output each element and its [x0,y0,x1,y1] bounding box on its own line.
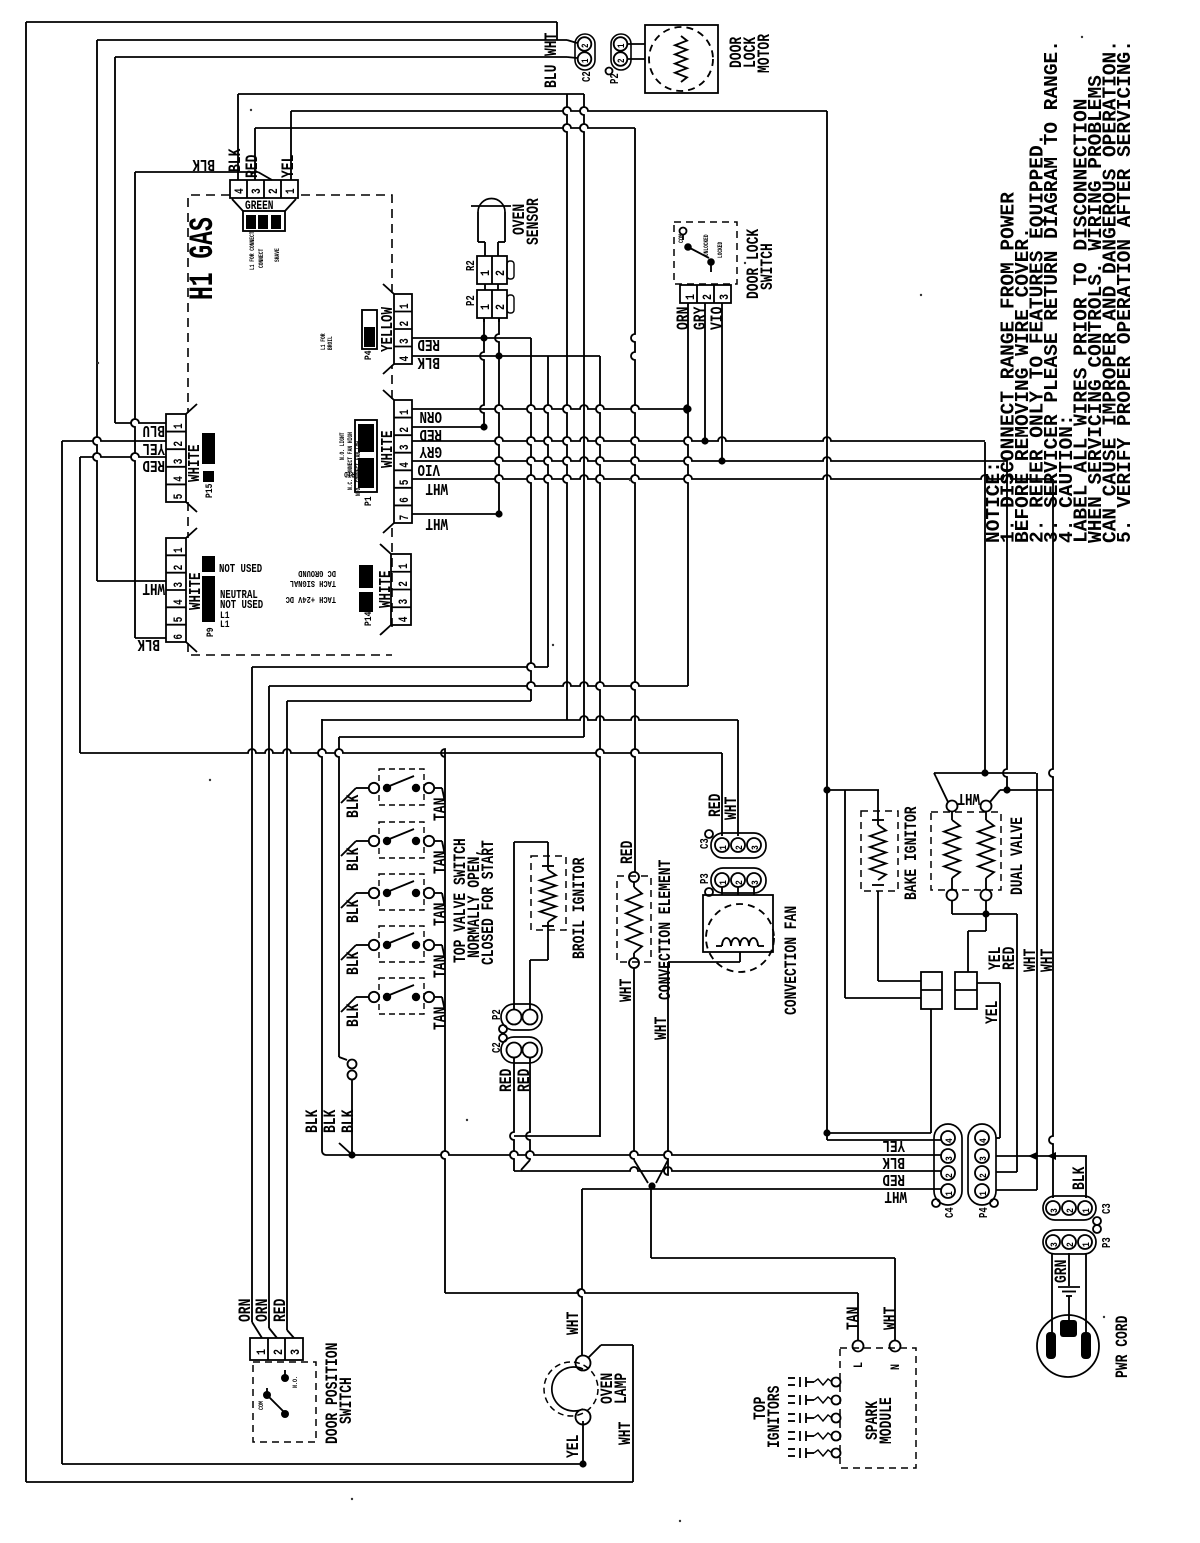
svg-text:2: 2 [268,188,282,194]
svg-text:BROIL IGNITOR: BROIL IGNITOR [569,857,589,959]
wire BLK into P9 pin6 [135,637,166,639]
wire WHT P1.5 y479 [412,475,1053,479]
pwr cord plug [1037,1315,1099,1377]
svg-text:RED: RED [514,1069,534,1092]
wire valve bottom left lead [951,900,953,914]
svg-text:2: 2 [1064,1208,1076,1213]
svg-text:3: 3 [749,880,761,885]
wire RED broil x514 down [510,1058,514,1171]
wire BLK vertical x584 [580,94,584,737]
svg-text:5: 5 [173,616,187,622]
wire valve bottom right lead [985,900,987,931]
terminal rect1 [921,972,942,1009]
svg-text:L: L [851,1362,867,1368]
svg-text:P2: P2 [491,1009,505,1020]
svg-text:2: 2 [580,44,591,48]
bake ignitor dashed box [861,811,898,891]
wire WHT y1258 run to spark module N [651,1257,895,1259]
svg-text:TAN: TAN [430,1007,450,1030]
svg-text:2: 2 [700,294,716,300]
terminal L [853,1341,864,1352]
P9 plug blobs [202,556,215,572]
door position switch pin block [250,1338,303,1360]
svg-text:3: 3 [977,1156,989,1161]
svg-text:P2: P2 [465,295,479,306]
wire BLU into P5 pin1 [115,419,166,423]
svg-text:GREEN: GREEN [245,200,273,214]
wire YEL from GREEN pin1 up [290,111,292,180]
GREEN sub-connector [232,199,243,211]
wire P4.2 jog [996,1171,1017,1173]
wire RED vertical x80 [79,457,81,753]
svg-text:N.C. CONNECT FAN HIGH: N.C. CONNECT FAN HIGH [347,432,354,490]
oven sensor bulb [478,199,505,213]
wire BLK from GREEN pin2 diagonal [258,172,272,180]
wire RED into P5 pin3 [80,453,166,457]
svg-text:1: 1 [173,547,187,553]
svg-text:TACH +24V DC: TACH +24V DC [286,594,336,604]
wire WHT x582 to oven lamp [578,1189,582,1356]
wire GRY doorlock pin2 down [704,303,706,441]
wire ORN P1.1 y409 [412,405,688,409]
svg-text:TAN: TAN [430,955,450,978]
wire WHT x1037 riser [1036,773,1038,1156]
connector P2 sensor [477,290,507,318]
wire BLU C2 feed [115,56,567,58]
wire y1136 stub [514,1135,600,1137]
wire RED P1.2 y427 [412,426,484,428]
svg-text:RED: RED [417,334,440,352]
terminal N [890,1341,901,1352]
svg-text:2: 2 [399,427,413,433]
wire P3.1 to plug [1085,1253,1087,1334]
wire YEL rect2 to P4.4 [977,982,1000,984]
svg-text:CONVECTION FAN: CONVECTION FAN [781,906,801,1015]
svg-text:WHT: WHT [142,578,165,596]
wire YEL top y111 to x827 [291,107,827,111]
svg-text:1: 1 [977,1191,989,1196]
svg-text:1: 1 [1080,1242,1092,1247]
svg-text:3: 3 [288,1349,304,1355]
svg-text:3: 3 [943,1156,955,1161]
wire ORN vertical x269 [268,686,270,1328]
wire WHT elbow to C2 [556,22,558,40]
svg-text:WHT: WHT [957,788,980,806]
svg-text:2: 2 [173,564,187,570]
wire RED x635 to convection element [631,128,635,872]
svg-text:ORN: ORN [420,406,442,424]
wire P4.1 jog [996,1189,1037,1191]
svg-text:WHT: WHT [651,1017,671,1040]
svg-text:2: 2 [977,1173,989,1178]
top valve switch 1 [369,783,379,793]
svg-text:H1 GAS: H1 GAS [184,217,223,300]
wire YEL y1140 to C4.4 [827,1139,941,1141]
svg-text:MOTOR: MOTOR [754,33,774,73]
svg-text:5. VERIFY PROPER OPERATION AFT: 5. VERIFY PROPER OPERATION AFTER SERVICI… [1114,40,1136,543]
svg-text:TAN: TAN [843,1307,863,1330]
wire VIO x1007 to dual valve [1003,460,1007,790]
wire BLK horizontal y172 [135,171,258,173]
wire BLK y737 run [339,736,584,738]
svg-text:WHT: WHT [616,979,636,1002]
P14 blob [359,565,373,588]
svg-text:4: 4 [173,599,187,605]
svg-text:DUAL VALVE: DUAL VALVE [1007,817,1027,895]
wire L vertical x858 [857,1293,859,1340]
wire RED x722 to C3.1 [721,753,723,836]
svg-text:RED: RED [882,1169,905,1187]
svg-text:TAN: TAN [430,903,450,926]
wire WHT C2 feed [97,39,567,41]
broil ignitor resistor [540,870,556,922]
svg-text:7: 7 [399,515,413,521]
svg-text:2: 2 [493,270,509,276]
svg-text:3: 3 [717,294,733,300]
svg-text:BLK: BLK [192,154,215,172]
svg-text:1: 1 [478,304,494,310]
svg-text:LOCKED: LOCKED [717,242,724,258]
svg-text:PWR CORD: PWR CORD [1112,1316,1132,1378]
svg-text:3: 3 [173,582,187,588]
svg-text:N.O. CONNECT FAN LOW: N.O. CONNECT FAN LOW [355,440,362,496]
svg-text:GRY: GRY [419,441,442,459]
svg-text:3: 3 [173,458,187,464]
svg-text:P14: P14 [362,611,374,626]
wire ORN y686 run [269,682,688,686]
wire VIO doorlock pin3 down [721,303,723,461]
svg-text:SHAVE: SHAVE [274,248,281,262]
wire TAN y1293 run to spark module L [445,1289,858,1293]
svg-text:C3: C3 [1101,1203,1115,1214]
fan pin stubs [721,887,723,895]
svg-text:3: 3 [749,845,761,850]
top valve switch dashed boxes [379,769,424,805]
door lock switch contacts [680,228,687,235]
fan motor box [703,895,773,952]
svg-text:MODULE: MODULE [876,1397,896,1444]
sensor stubs [484,284,486,290]
svg-text:P3: P3 [699,873,713,884]
wire y931 to rect2 [968,930,986,932]
wire BLK vertical x600 [596,356,600,1137]
svg-text:BLK: BLK [137,634,160,652]
svg-text:1: 1 [717,880,729,885]
wire YEL vertical x62 [61,441,63,1464]
svg-text:VIO: VIO [707,307,727,330]
svg-text:L1 FOR: L1 FOR [320,333,327,350]
broil bottom loop [530,959,548,961]
P5 plug blobs [202,433,215,464]
wire RED top y128 to x635 [255,124,635,128]
wire TAN vertical x445 switch bus [441,749,445,1293]
top valve switch 2 [369,836,379,846]
connector C3 power [1043,1196,1096,1220]
svg-text:UNLOCKED: UNLOCKED [703,234,710,256]
svg-text:WHITE: WHITE [187,444,205,482]
svg-text:COM: COM [257,1401,265,1410]
wire WHT into P9 pin3 [97,580,166,582]
convection element resistor [629,872,639,882]
svg-text:2: 2 [1064,1242,1076,1247]
wire outer WHT left vertical [25,22,27,1482]
door position switch dashed box [253,1362,316,1442]
svg-text:C2: C2 [581,71,595,82]
svg-text:4: 4 [399,462,413,468]
connector C4 [934,1124,962,1205]
top ignitor 1 [832,1378,841,1387]
svg-text:L1 FOR CONNECT: L1 FOR CONNECT [249,231,256,270]
svg-text:WHT: WHT [1037,949,1057,972]
connector P14 4-pin block [391,554,411,625]
wire RED y753 run [80,749,722,753]
wire WHT x633 down [632,1345,634,1482]
svg-text:WHT: WHT [425,478,448,496]
svg-text:IGNITORS: IGNITORS [764,1386,784,1448]
svg-text:WHITE: WHITE [378,570,396,608]
wire lamp diagonal to x633 [588,1345,601,1358]
wire P3.3 to plug [1051,1253,1053,1334]
svg-text:BLK: BLK [343,794,363,818]
wire outer WHT top horizontal [26,21,557,23]
wire BLK from GREEN pin4 up [237,94,239,180]
svg-text:WHT: WHT [880,1307,900,1330]
wire valve top-right diagonal [990,790,1000,802]
svg-text:RED: RED [617,841,637,864]
door lock motor dashed circle [649,27,713,91]
door lock motor box [645,25,718,93]
scan artifacts [97,362,99,364]
connector P8 YELLOW 4-pin block [394,294,412,364]
wire BLK y667 run [252,663,548,667]
svg-text:DC GROUND: DC GROUND [298,568,336,578]
wire YEL y1133 [827,1132,931,1134]
door lock switch pin block [680,285,731,303]
svg-text:C4: C4 [944,1207,958,1218]
svg-text:6: 6 [173,634,187,640]
top ignitor 5 [832,1449,841,1458]
wire RED from GREEN pin3 up [254,128,256,180]
wire BLK x1086 to C3.1 [1085,1156,1087,1198]
wire RED vertical x531 corner [527,338,531,701]
wire ORN vertical x252 to door position switch [251,667,253,1322]
svg-text:BAKE IGNITOR: BAKE IGNITOR [901,806,921,900]
svg-text:YELLOW: YELLOW [380,307,398,352]
svg-text:4: 4 [399,356,413,362]
svg-text:3: 3 [399,338,413,344]
wire GRY P1.3 y441 [412,437,985,441]
wire valve bottom y914 [952,913,1017,915]
ground symbol [1058,1286,1080,1288]
wire YEL y1464 bottom run [62,1463,586,1465]
connector P9 6-pin block [166,538,186,642]
connector P3 power [1043,1230,1096,1254]
svg-text:2: 2 [271,1349,287,1355]
svg-text:TAN: TAN [430,798,450,821]
svg-text:1: 1 [285,188,299,194]
inline connector on BLK bus [339,1057,347,1060]
svg-text:5: 5 [399,479,413,485]
fan dashed circle [706,904,774,972]
wire BLK vertical x322 [318,719,322,1151]
svg-text:3: 3 [399,444,413,450]
svg-text:WHT: WHT [721,797,741,820]
connector P5 5-pin block [166,414,186,502]
wire WHT fan x668 down [664,962,668,1175]
broil ignitor dashed box [531,856,566,930]
svg-text:P1: P1 [362,496,374,506]
connector R2 [477,256,507,284]
svg-text:C2: C2 [491,1042,505,1053]
door lock switch dashed box [674,222,737,284]
svg-text:YEL: YEL [278,155,298,178]
svg-text:1: 1 [683,294,699,300]
wire WHT y1482 bottom run [26,1481,633,1483]
wire oven sensor wire2 x499 [495,318,499,514]
connector P2 door lock [611,34,631,70]
wire WHT x651 down from junction [650,1186,652,1258]
wire dual valve top-left diagonal [936,777,948,802]
wire BLK vertical x135 to P9.6 [131,172,135,638]
top ignitor 4 [832,1432,841,1441]
svg-text:BLK: BLK [1069,1166,1089,1190]
wire convection fan bottom [739,952,741,962]
wire P4.3 y1156 run with arrows [996,1155,1087,1157]
svg-text:RED: RED [142,455,165,473]
svg-text:R2: R2 [465,260,479,271]
svg-text:P4: P4 [362,350,374,360]
wire RED oven-sensor line y338 [412,337,531,339]
door position switch contacts [263,1391,271,1399]
wire BLU vertical x115 [114,57,116,423]
wire RED y701 run [287,700,531,702]
connector P4 [968,1124,996,1205]
svg-text:4: 4 [398,616,412,622]
oven lamp filament arc [552,1367,583,1411]
svg-text:1: 1 [254,1349,270,1355]
arrowheads on y1156 [1028,1152,1037,1160]
svg-text:GRN: GRN [1051,1260,1071,1283]
wire WHT valve top y790 right [1000,789,1053,791]
svg-text:1: 1 [580,59,591,63]
top valve switch 4 [369,940,379,950]
svg-text:BLK: BLK [343,899,363,923]
svg-text:CONNECT: CONNECT [258,248,265,268]
svg-text:SENSOR: SENSOR [523,197,543,245]
wire YEL lamp bottom stub [582,1421,584,1464]
door lock motor coil [675,36,687,82]
wire oven sensor wire1 x484 [480,318,484,427]
svg-text:1: 1 [943,1191,955,1196]
svg-text:RED: RED [270,1299,290,1322]
svg-text:1: 1 [616,44,627,48]
svg-text:1: 1 [478,270,494,276]
wire convection element bottom x634 [630,968,634,1160]
svg-text:3: 3 [251,188,265,194]
svg-text:SWITCH: SWITCH [336,1377,356,1424]
wire YEL into P5 pin2 [62,437,166,441]
dual valve coil right [981,801,992,812]
P1 blob box [355,420,377,492]
svg-text:BLK: BLK [343,1003,363,1027]
convection element dashed box [617,876,651,962]
spark module dashed box [840,1348,916,1468]
wire rect1 bottom x931 [930,1009,932,1133]
svg-text:3: 3 [1048,1208,1060,1213]
svg-text:6: 6 [399,497,413,503]
svg-text:YEL: YEL [882,1135,905,1153]
svg-text:P3: P3 [1101,1237,1115,1248]
wire RED vertical x287 [286,701,288,1330]
wire RED y1171 to C4.2 [514,1167,941,1171]
svg-text:1: 1 [1080,1208,1092,1213]
svg-text:N.O. LIGHT: N.O. LIGHT [339,432,346,460]
svg-text:VIO: VIO [417,459,440,477]
svg-text:4: 4 [977,1138,989,1143]
wire VIO P1.4 y461 [412,457,1007,461]
svg-text:WHITE: WHITE [380,430,398,468]
top ignitor 2 [832,1396,841,1405]
svg-text:RTD: RTD [344,469,355,478]
wire BLK vertical x339 switch bus [335,737,339,1057]
svg-text:3: 3 [1048,1242,1060,1247]
svg-text:YEL: YEL [142,438,165,456]
svg-text:1: 1 [173,423,187,429]
svg-text:BLK: BLK [417,352,440,370]
wire P3.2 to ground [1068,1253,1070,1286]
svg-text:2: 2 [616,59,627,63]
wire BLK vertical x567 [563,94,567,720]
wire RED broil x530 down [526,1058,530,1160]
svg-text:N: N [888,1364,904,1370]
connector P2 broil [501,1004,542,1030]
wire WHT P1.7 y514 [412,513,499,515]
wire GRY x985 to dual valve [984,442,986,773]
wire bake ignitor bottom lead [877,891,879,981]
wire BLK board line y356 [412,355,600,357]
svg-text:1: 1 [398,563,412,569]
wire YEL long vertical x827 [826,111,828,1140]
wire WHT x1053 [1049,479,1053,1198]
svg-text:3: 3 [398,599,412,605]
svg-text:5: 5 [173,493,187,499]
svg-text:2: 2 [399,321,413,327]
svg-text:WHT: WHT [563,1312,583,1335]
wire BLK top y94 [238,93,584,95]
svg-text:COM: COM [677,234,685,243]
wire jogs into pins [252,1322,262,1338]
svg-text:WHT: WHT [615,1422,635,1445]
svg-text:1: 1 [399,409,413,415]
svg-text:1: 1 [399,303,413,309]
top valve switch 3 [369,888,379,898]
svg-text:BLK: BLK [882,1152,905,1170]
broil top loop [514,841,548,843]
svg-text:BLU: BLU [143,420,165,438]
svg-text:4: 4 [234,188,248,194]
svg-text:CONVECTION ELEMENT: CONVECTION ELEMENT [655,860,675,1000]
svg-text:WHT: WHT [425,513,448,531]
svg-text:P2: P2 [609,73,623,84]
svg-text:TACH SIGNAL: TACH SIGNAL [290,578,336,588]
junction dots [480,334,487,341]
svg-text:P15: P15 [203,483,215,498]
wire YEL x845 loop [844,790,846,998]
connector C2 broil [501,1037,542,1063]
connector C2 door lock [575,34,595,70]
svg-text:WHT: WHT [541,33,561,56]
svg-text:2: 2 [733,880,745,885]
